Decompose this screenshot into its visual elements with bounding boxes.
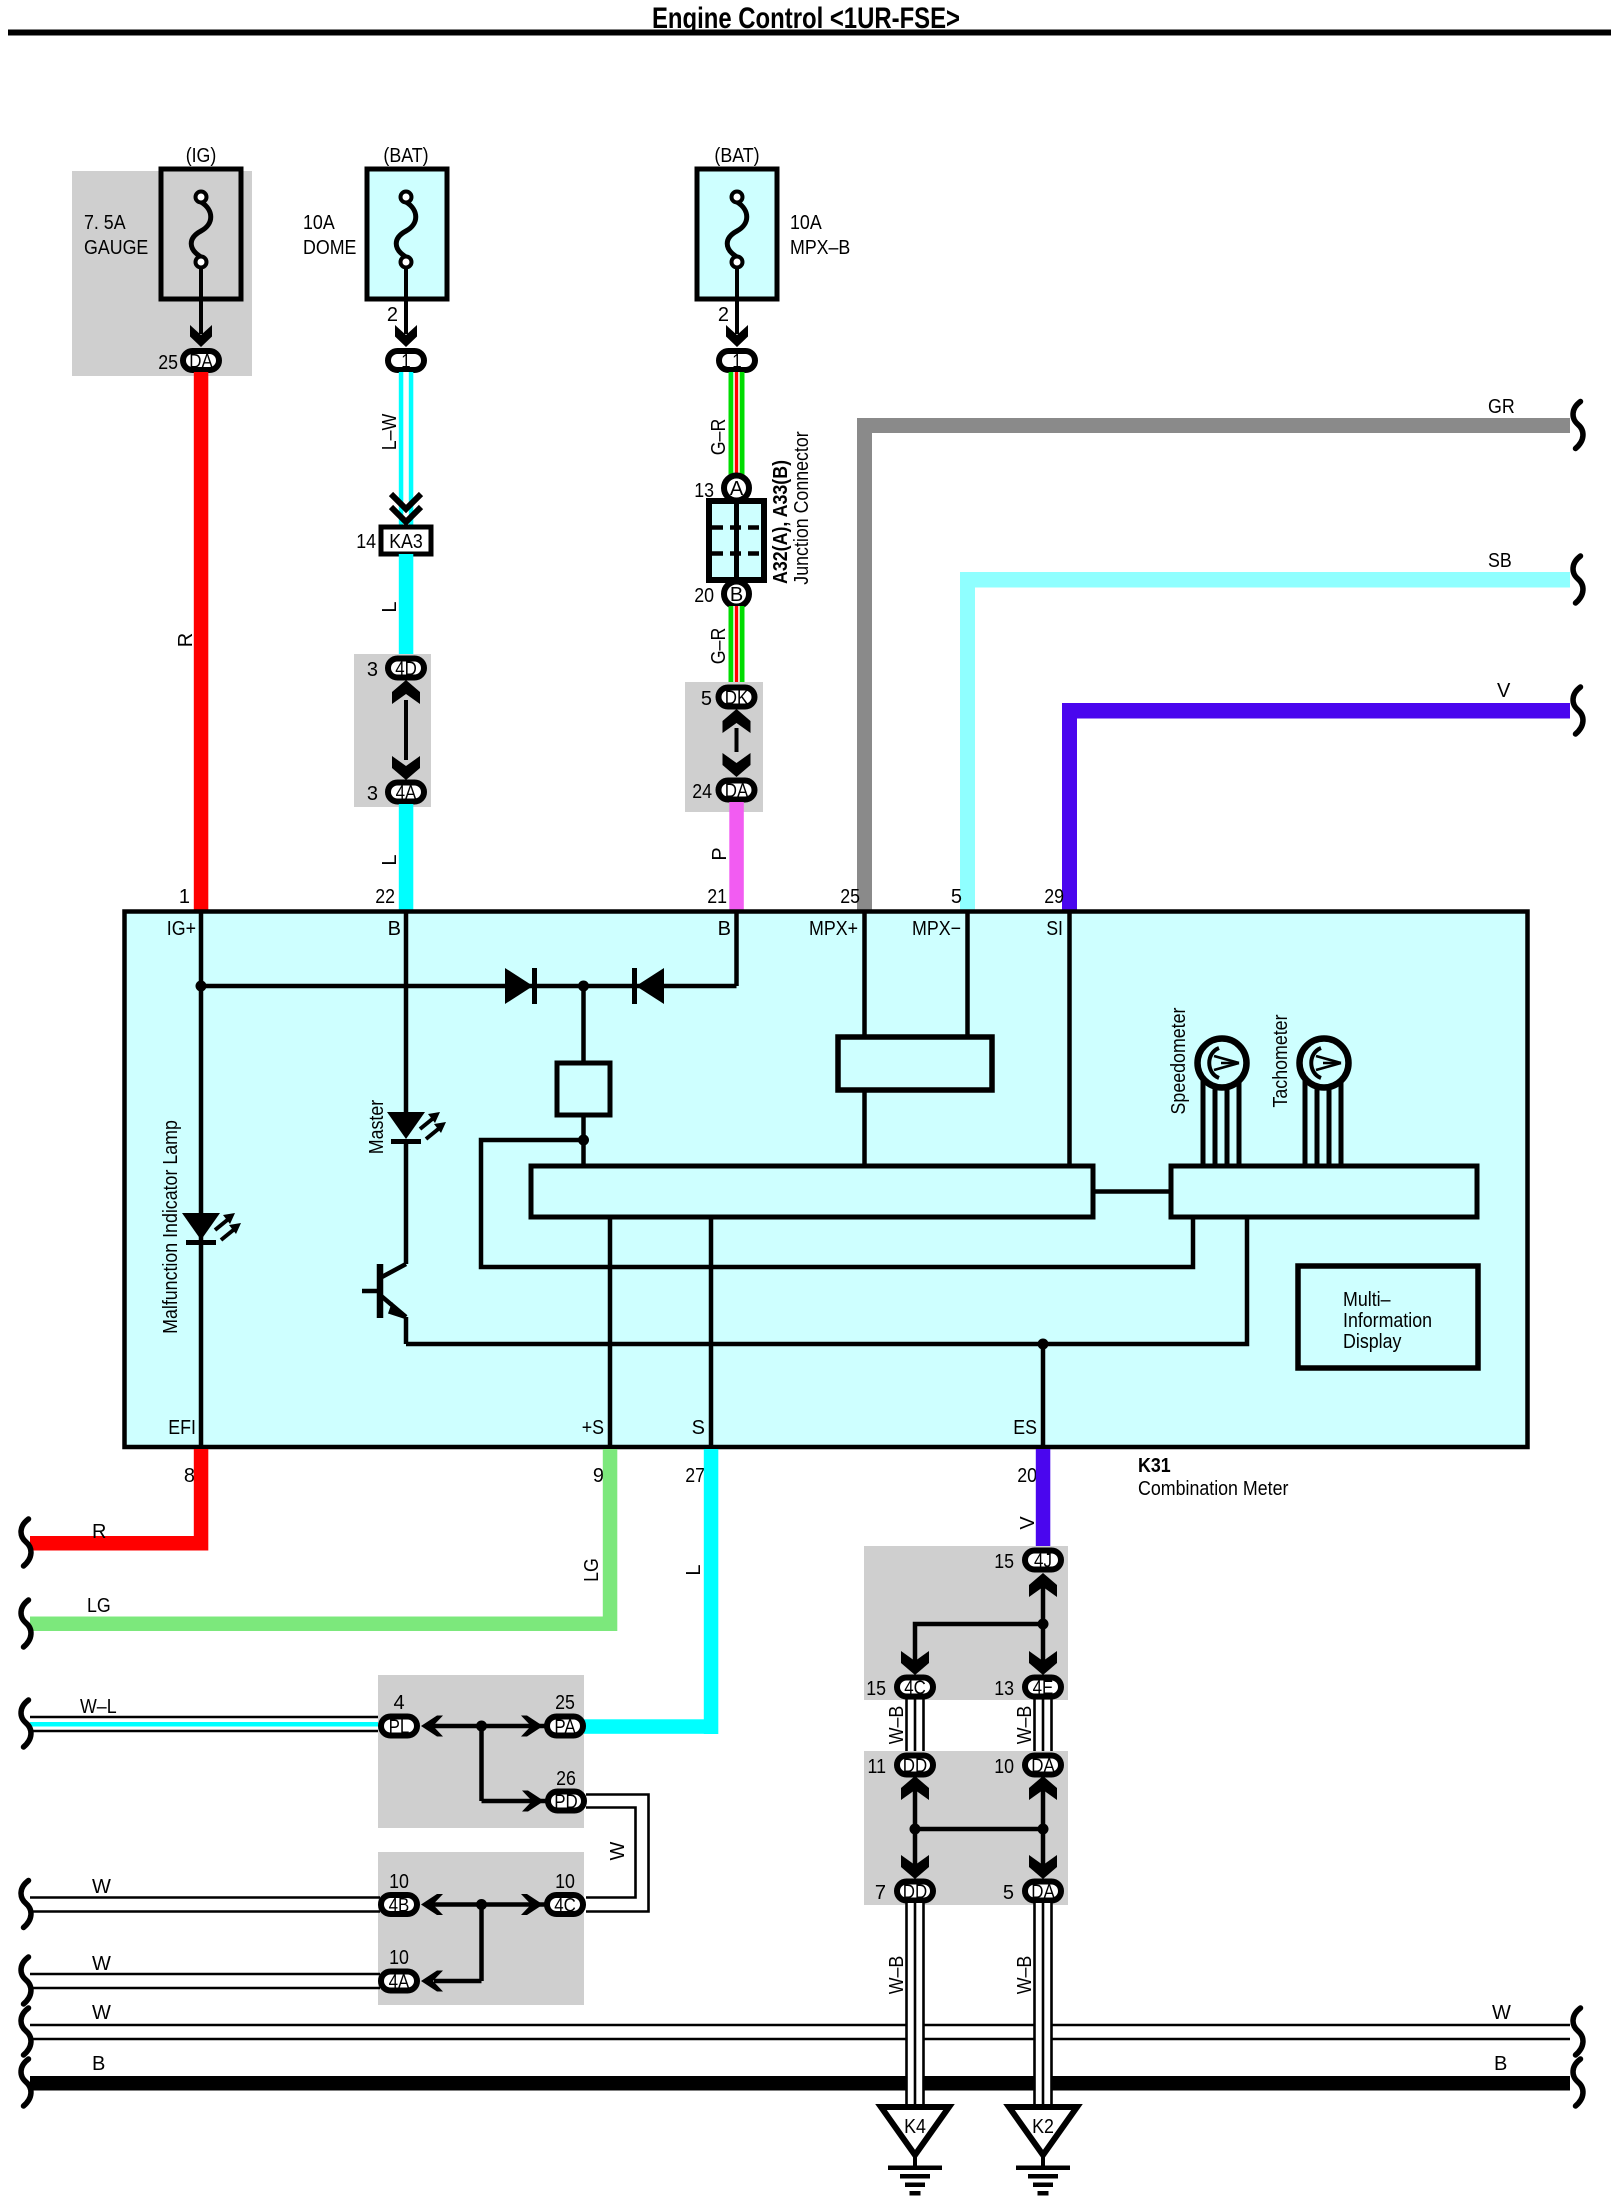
arrow up into 4D bbox=[392, 680, 420, 704]
wire W into 4A bbox=[30, 1973, 380, 1976]
svg-text:10: 10 bbox=[389, 1947, 409, 1969]
svg-text:4A: 4A bbox=[389, 1972, 410, 1993]
cut W3 right bbox=[1573, 2008, 1583, 2055]
fuse F3 body bbox=[697, 169, 777, 299]
wire W-B 4C to DD bbox=[905, 1699, 908, 1753]
svg-text:MPX–B: MPX–B bbox=[790, 237, 850, 259]
svg-text:Junction Connector: Junction Connector bbox=[791, 431, 813, 585]
connector 4 PL bbox=[381, 1717, 417, 1736]
connector 26 PD bbox=[548, 1792, 584, 1811]
wire L from KA3 bbox=[399, 554, 414, 656]
svg-text:2: 2 bbox=[718, 304, 729, 326]
svg-text:PA: PA bbox=[554, 1717, 576, 1738]
svg-text:7: 7 bbox=[875, 1882, 886, 1904]
open chevron into KA3 bbox=[391, 494, 421, 509]
svg-text:B: B bbox=[730, 584, 743, 606]
junction wiring 4B/4C/4A bbox=[430, 1902, 546, 1907]
svg-text:20: 20 bbox=[1017, 1465, 1037, 1487]
gauge Speedometer bbox=[1201, 1080, 1206, 1166]
svg-text:MPX−: MPX− bbox=[912, 918, 961, 940]
svg-text:EFI: EFI bbox=[168, 1417, 196, 1439]
connector 10 4C bbox=[547, 1895, 583, 1914]
svg-text:P: P bbox=[709, 847, 731, 860]
svg-text:Speedometer: Speedometer bbox=[1168, 1007, 1190, 1114]
svg-text:10: 10 bbox=[555, 1871, 575, 1893]
wiring DD/DA bridge bbox=[913, 1779, 918, 1869]
wire SI internal bbox=[1067, 911, 1072, 1166]
wire F2 pin2 bbox=[404, 267, 408, 334]
svg-text:W–B: W–B bbox=[886, 1956, 908, 1995]
arrow down into DA4 bbox=[1029, 1855, 1057, 1879]
combination meter K31 box bbox=[125, 912, 1528, 1448]
grey block 4B/4C/4A bbox=[378, 1852, 584, 2005]
wire B21 internal bbox=[734, 911, 739, 986]
connector 11 DD bbox=[897, 1756, 933, 1775]
connector 13 4E bbox=[1025, 1678, 1061, 1697]
wire diode row bbox=[201, 984, 737, 989]
svg-text:15: 15 bbox=[866, 1678, 886, 1700]
svg-text:10A: 10A bbox=[790, 212, 822, 234]
connector 5 DK bbox=[719, 688, 755, 707]
cut W-L bbox=[21, 1700, 31, 1747]
resistor block bbox=[557, 1063, 610, 1115]
svg-text:W: W bbox=[92, 1876, 111, 1898]
wire LED to transistor bbox=[404, 1141, 409, 1264]
svg-text:DA: DA bbox=[1031, 1882, 1055, 1903]
grey block PL/PA/PD bbox=[378, 1675, 584, 1828]
IC bar left bbox=[531, 1166, 1093, 1217]
svg-text:7. 5A: 7. 5A bbox=[84, 212, 126, 234]
svg-text:22: 22 bbox=[375, 886, 395, 908]
svg-text:2: 2 bbox=[387, 304, 398, 326]
svg-text:L–W: L–W bbox=[379, 414, 401, 451]
grey block 4D/4A bbox=[354, 654, 431, 807]
svg-text:GAUGE: GAUGE bbox=[84, 237, 148, 259]
svg-text:29: 29 bbox=[1044, 886, 1064, 908]
arrow down into 4C2 bbox=[901, 1651, 929, 1675]
svg-text:LG: LG bbox=[581, 1558, 603, 1582]
svg-text:5: 5 bbox=[951, 886, 962, 908]
node at IG+ branch bbox=[196, 981, 207, 992]
svg-text:IG+: IG+ bbox=[167, 918, 196, 940]
connector 15 4J bbox=[1025, 1551, 1061, 1570]
svg-text:8: 8 bbox=[184, 1465, 195, 1487]
ground K4 bbox=[881, 2107, 949, 2155]
svg-text:SI: SI bbox=[1046, 918, 1063, 940]
connector 15 4C bbox=[897, 1678, 933, 1697]
svg-text:4: 4 bbox=[393, 1692, 404, 1714]
arrow up into DD bbox=[901, 1776, 929, 1800]
svg-text:S: S bbox=[692, 1417, 705, 1439]
junction connector J box bbox=[709, 501, 764, 580]
wire B22 internal bbox=[404, 911, 409, 1112]
diode D2 bbox=[636, 968, 664, 1004]
svg-text:1: 1 bbox=[732, 352, 741, 373]
svg-text:Master: Master bbox=[366, 1099, 388, 1154]
wire node to resistor bbox=[581, 986, 586, 1063]
arrow into 4B bbox=[421, 1894, 443, 1915]
connector 7 DD bbox=[897, 1882, 933, 1901]
svg-text:+S: +S bbox=[582, 1417, 604, 1439]
junction wiring PL/PA/PD bbox=[430, 1724, 546, 1729]
wire +S bbox=[608, 1217, 613, 1447]
wire loop to right bar bbox=[481, 1140, 1193, 1267]
cut B right bbox=[1573, 2059, 1583, 2106]
cut B left bbox=[21, 2059, 31, 2106]
svg-text:14: 14 bbox=[356, 531, 376, 553]
svg-text:W–L: W–L bbox=[80, 1696, 117, 1718]
wire G-R lower bbox=[729, 606, 745, 684]
wiring 4J to 4C/4E bbox=[1041, 1576, 1046, 1665]
grey block 4J/4C/4E bbox=[864, 1546, 1068, 1700]
connector KA3 bbox=[381, 527, 431, 554]
svg-text:4A: 4A bbox=[396, 783, 417, 804]
wire W-L bbox=[30, 1722, 380, 1727]
wire L to PA bbox=[704, 1449, 719, 1734]
node below resistor bbox=[578, 1135, 589, 1146]
svg-text:24: 24 bbox=[692, 781, 712, 803]
arrow down into DA2 bbox=[723, 753, 751, 777]
svg-text:10A: 10A bbox=[303, 212, 335, 234]
fuse F1 body bbox=[161, 169, 241, 299]
wire G-R upper bbox=[729, 372, 745, 476]
svg-text:26: 26 bbox=[556, 1768, 576, 1790]
svg-text:G–R: G–R bbox=[708, 419, 730, 456]
svg-text:Information: Information bbox=[1343, 1310, 1432, 1332]
svg-text:W: W bbox=[92, 1953, 111, 1975]
transistor Q1 bbox=[377, 1264, 384, 1318]
svg-text:25: 25 bbox=[840, 886, 860, 908]
svg-text:L: L bbox=[683, 1564, 705, 1575]
svg-text:(IG): (IG) bbox=[186, 145, 217, 167]
wire bar link bbox=[1093, 1189, 1171, 1194]
wire R bottom bbox=[194, 1449, 209, 1551]
cut W2 bbox=[21, 1957, 31, 2004]
diode D1 bbox=[505, 968, 533, 1004]
svg-text:PL: PL bbox=[389, 1717, 410, 1738]
svg-text:W–B: W–B bbox=[1014, 1706, 1036, 1745]
svg-text:KA3: KA3 bbox=[389, 531, 423, 553]
svg-text:10: 10 bbox=[994, 1756, 1014, 1778]
svg-text:SB: SB bbox=[1488, 550, 1512, 572]
wire F3 pin2 bbox=[735, 267, 739, 334]
svg-text:G–R: G–R bbox=[708, 628, 730, 665]
node ES junction bbox=[1038, 1339, 1049, 1350]
svg-text:DA: DA bbox=[1031, 1756, 1055, 1777]
connector 25 PA bbox=[547, 1717, 583, 1736]
wire L to pin22 bbox=[399, 804, 414, 910]
wire emitter to ES bbox=[406, 1219, 1247, 1344]
arrow up into 4J bbox=[1029, 1573, 1057, 1597]
svg-text:R: R bbox=[92, 1521, 106, 1543]
svg-text:1: 1 bbox=[401, 352, 410, 373]
wire S bbox=[709, 1217, 714, 1447]
arrow into PD bbox=[522, 1791, 544, 1812]
svg-text:11: 11 bbox=[868, 1756, 887, 1778]
svg-text:Tachometer: Tachometer bbox=[1270, 1014, 1292, 1107]
svg-text:L: L bbox=[379, 601, 401, 612]
svg-text:Multi–: Multi– bbox=[1343, 1289, 1391, 1311]
connector 24 DA bbox=[719, 781, 755, 800]
svg-text:ES: ES bbox=[1013, 1417, 1037, 1439]
arrow into conn 1 mpx bbox=[726, 325, 748, 347]
svg-text:4E: 4E bbox=[1033, 1678, 1054, 1699]
arrow down into 4E bbox=[1029, 1651, 1057, 1675]
svg-text:V: V bbox=[1497, 680, 1511, 702]
svg-text:DD: DD bbox=[903, 1882, 927, 1903]
svg-text:5: 5 bbox=[1003, 1882, 1014, 1904]
svg-text:(BAT): (BAT) bbox=[714, 145, 759, 167]
svg-text:(BAT): (BAT) bbox=[383, 145, 428, 167]
svg-text:1: 1 bbox=[179, 886, 190, 908]
arrow up into DA3 bbox=[1029, 1776, 1057, 1800]
svg-text:DD: DD bbox=[903, 1756, 927, 1777]
svg-text:A32(A), A33(B): A32(A), A33(B) bbox=[770, 460, 792, 584]
svg-text:MPX+: MPX+ bbox=[809, 918, 858, 940]
svg-text:W: W bbox=[1492, 2002, 1511, 2024]
wire W into 4B bbox=[30, 1896, 380, 1899]
svg-text:25: 25 bbox=[158, 352, 178, 374]
svg-text:B: B bbox=[718, 918, 731, 940]
wire B full width bbox=[30, 2076, 1570, 2091]
LED Master lamp bbox=[387, 1112, 425, 1139]
svg-text:10: 10 bbox=[389, 1871, 409, 1893]
svg-text:B: B bbox=[92, 2053, 105, 2075]
svg-text:9: 9 bbox=[593, 1465, 604, 1487]
wire between 4D/4A bbox=[404, 700, 408, 760]
svg-text:4D: 4D bbox=[395, 659, 417, 680]
svg-text:W: W bbox=[607, 1841, 629, 1860]
junction connector circle B bbox=[724, 582, 749, 607]
svg-text:W–B: W–B bbox=[1014, 1956, 1036, 1995]
svg-text:V: V bbox=[1017, 1516, 1039, 1530]
connector 1 mpx bbox=[719, 351, 755, 370]
fuse F2 body bbox=[367, 169, 447, 299]
connector 1 dome bbox=[388, 351, 424, 370]
svg-text:21: 21 bbox=[707, 886, 727, 908]
cut W1 bbox=[21, 1881, 31, 1928]
svg-text:5: 5 bbox=[701, 688, 712, 710]
svg-text:4J: 4J bbox=[1034, 1551, 1052, 1572]
wire R (red) pin1 bbox=[194, 372, 209, 910]
node diode mid bbox=[578, 981, 589, 992]
svg-text:27: 27 bbox=[685, 1465, 705, 1487]
svg-text:B: B bbox=[388, 918, 401, 940]
svg-text:W: W bbox=[92, 2002, 111, 2024]
svg-text:LG: LG bbox=[87, 1595, 111, 1617]
svg-text:GR: GR bbox=[1488, 396, 1515, 418]
svg-text:20: 20 bbox=[694, 585, 714, 607]
arrow down into DD2 bbox=[901, 1855, 929, 1879]
wire MPX- internal bbox=[965, 911, 970, 1037]
svg-text:Combination Meter: Combination Meter bbox=[1138, 1478, 1289, 1500]
svg-text:4B: 4B bbox=[389, 1896, 410, 1917]
svg-text:K31: K31 bbox=[1138, 1455, 1171, 1477]
wire W-B DD to ground bbox=[907, 1903, 924, 2107]
svg-text:13: 13 bbox=[994, 1678, 1014, 1700]
svg-text:DA: DA bbox=[725, 781, 749, 802]
wire GR (grey) bbox=[857, 418, 872, 910]
cut R bbox=[21, 1519, 31, 1566]
cut V bbox=[1573, 687, 1583, 734]
wire L-W bbox=[399, 372, 414, 527]
wire IG+ to EFI bbox=[199, 911, 204, 1447]
wire ES down bbox=[1041, 1344, 1046, 1447]
MPX transceiver block bbox=[838, 1037, 992, 1090]
connector 10 DA bbox=[1025, 1756, 1061, 1775]
svg-text:PD: PD bbox=[554, 1792, 578, 1813]
svg-text:DA: DA bbox=[189, 352, 213, 373]
cut LG bbox=[21, 1600, 31, 1647]
arrow into conn 1 bbox=[395, 325, 417, 347]
wire W from PD bbox=[586, 1795, 649, 1912]
junction connector circle A bbox=[724, 476, 749, 501]
wire V top bbox=[1062, 703, 1077, 910]
svg-text:Display: Display bbox=[1343, 1331, 1401, 1353]
svg-text:A: A bbox=[730, 478, 744, 500]
gauge Tachometer bbox=[1303, 1080, 1308, 1166]
fuse F1 7.5A GAUGE grey block bbox=[72, 171, 252, 376]
arrow up into DK bbox=[723, 709, 751, 733]
svg-text:K2: K2 bbox=[1032, 2116, 1054, 2138]
svg-text:3: 3 bbox=[367, 659, 378, 681]
connector 5 DA bbox=[1025, 1882, 1061, 1901]
cut W3 left bbox=[21, 2008, 31, 2055]
svg-text:B: B bbox=[1494, 2053, 1507, 2075]
svg-text:Malfunction Indicator Lamp: Malfunction Indicator Lamp bbox=[160, 1120, 182, 1334]
wire MPX+ internal bbox=[862, 911, 867, 1037]
multi-information display box bbox=[1298, 1266, 1478, 1368]
cut GR bbox=[1573, 402, 1583, 449]
wire P (pink) bbox=[729, 802, 744, 910]
connector 25 DA bbox=[183, 351, 219, 370]
grey block DD/DA pairs bbox=[864, 1751, 1068, 1905]
svg-text:W–B: W–B bbox=[886, 1706, 908, 1745]
arrow into 4A bbox=[421, 1971, 443, 1992]
ground K2 bbox=[1009, 2107, 1077, 2155]
cut SB bbox=[1573, 556, 1583, 603]
svg-text:L: L bbox=[379, 854, 401, 865]
wire W-B 4E to DA bbox=[1033, 1699, 1036, 1753]
arrow down into 4A bbox=[392, 756, 420, 780]
wire transceiver to bar bbox=[862, 1090, 867, 1166]
connector 10 4A bbox=[381, 1972, 417, 1991]
grey block DK/DA bbox=[685, 682, 763, 812]
connector 3 4D bbox=[388, 659, 424, 678]
svg-text:4C: 4C bbox=[904, 1678, 926, 1699]
svg-text:DOME: DOME bbox=[303, 237, 356, 259]
wire F1 to connector bbox=[199, 267, 203, 334]
connector 3 4A bbox=[388, 783, 424, 802]
arrow into 4C bbox=[521, 1894, 543, 1915]
LED Malfunction Indicator Lamp bbox=[182, 1213, 220, 1240]
wire SB bbox=[960, 572, 975, 910]
svg-text:25: 25 bbox=[555, 1692, 575, 1714]
connector 10 4B bbox=[381, 1895, 417, 1914]
svg-text:4C: 4C bbox=[554, 1896, 576, 1917]
arrow into PL bbox=[421, 1716, 443, 1737]
arrow into PA bbox=[521, 1716, 543, 1737]
svg-text:15: 15 bbox=[994, 1551, 1014, 1573]
svg-text:K4: K4 bbox=[904, 2116, 926, 2138]
svg-text:R: R bbox=[175, 633, 197, 647]
wire W full width bbox=[30, 2024, 1570, 2027]
svg-text:DK: DK bbox=[725, 688, 749, 709]
wire W-B DA to ground bbox=[1035, 1903, 1052, 2107]
svg-text:3: 3 bbox=[367, 783, 378, 805]
wire LG bbox=[603, 1449, 618, 1631]
arrow into DA bbox=[190, 325, 212, 347]
IC bar right bbox=[1171, 1166, 1477, 1217]
wire V bottom bbox=[1036, 1449, 1051, 1551]
title rule bbox=[8, 30, 1611, 36]
